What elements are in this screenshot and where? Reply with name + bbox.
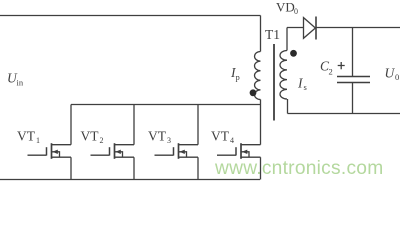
svg-text:VT: VT	[148, 129, 167, 144]
wire capacitor bottom lead	[352, 83, 354, 114]
svg-text:U: U	[385, 66, 396, 81]
wire VT1 drain vertical	[70, 105, 72, 145]
svg-text:VT: VT	[17, 129, 36, 144]
transistor VT4	[217, 143, 261, 179]
wire output bottom rail	[288, 113, 400, 115]
capacitor C2 bottom plate	[337, 82, 370, 84]
capacitor plus sign	[338, 62, 345, 69]
capacitor C2 top plate	[337, 76, 370, 78]
transistor VT1	[28, 143, 72, 179]
wire primary bottom lead	[260, 100, 262, 105]
wire top input rail	[0, 15, 261, 17]
svg-text:VT: VT	[211, 129, 230, 144]
svg-text:2: 2	[329, 67, 333, 77]
transistor VT2	[91, 143, 135, 179]
wire VT2 drain vertical	[133, 105, 135, 145]
svg-text:4: 4	[230, 136, 234, 145]
wire diode anode	[287, 27, 304, 29]
transformer core	[273, 44, 275, 121]
svg-text:www.cntronics.com: www.cntronics.com	[214, 158, 383, 179]
wire secondary top lead	[286, 28, 288, 51]
wire VT4 drain vertical	[260, 105, 262, 145]
wire secondary bottom lead	[287, 99, 289, 114]
svg-text:3: 3	[167, 136, 171, 145]
svg-text:2: 2	[100, 136, 104, 145]
wire capacitor top lead	[352, 28, 354, 77]
wire VT3 drain vertical	[197, 105, 199, 145]
svg-text:T1: T1	[265, 27, 280, 42]
svg-text:s: s	[304, 82, 307, 92]
svg-text:in: in	[17, 78, 24, 88]
wire primary top lead	[260, 16, 262, 52]
svg-text:0: 0	[395, 72, 399, 82]
transformer T1 secondary winding	[280, 51, 287, 99]
wire drain bus	[71, 104, 261, 106]
diode VD0 triangle	[304, 18, 316, 39]
node primary dot	[250, 89, 257, 96]
svg-text:VT: VT	[81, 129, 100, 144]
wire bottom rail	[0, 179, 260, 181]
svg-text:VD: VD	[276, 0, 295, 14]
transformer T1 primary winding	[255, 52, 261, 100]
node secondary dot	[290, 50, 297, 57]
diode VD0 cathode bar	[315, 17, 317, 40]
wire output top rail	[316, 27, 400, 29]
transistor VT3	[155, 143, 199, 179]
svg-text:p: p	[236, 72, 240, 82]
svg-text:0: 0	[294, 7, 298, 16]
svg-text:1: 1	[36, 136, 40, 145]
